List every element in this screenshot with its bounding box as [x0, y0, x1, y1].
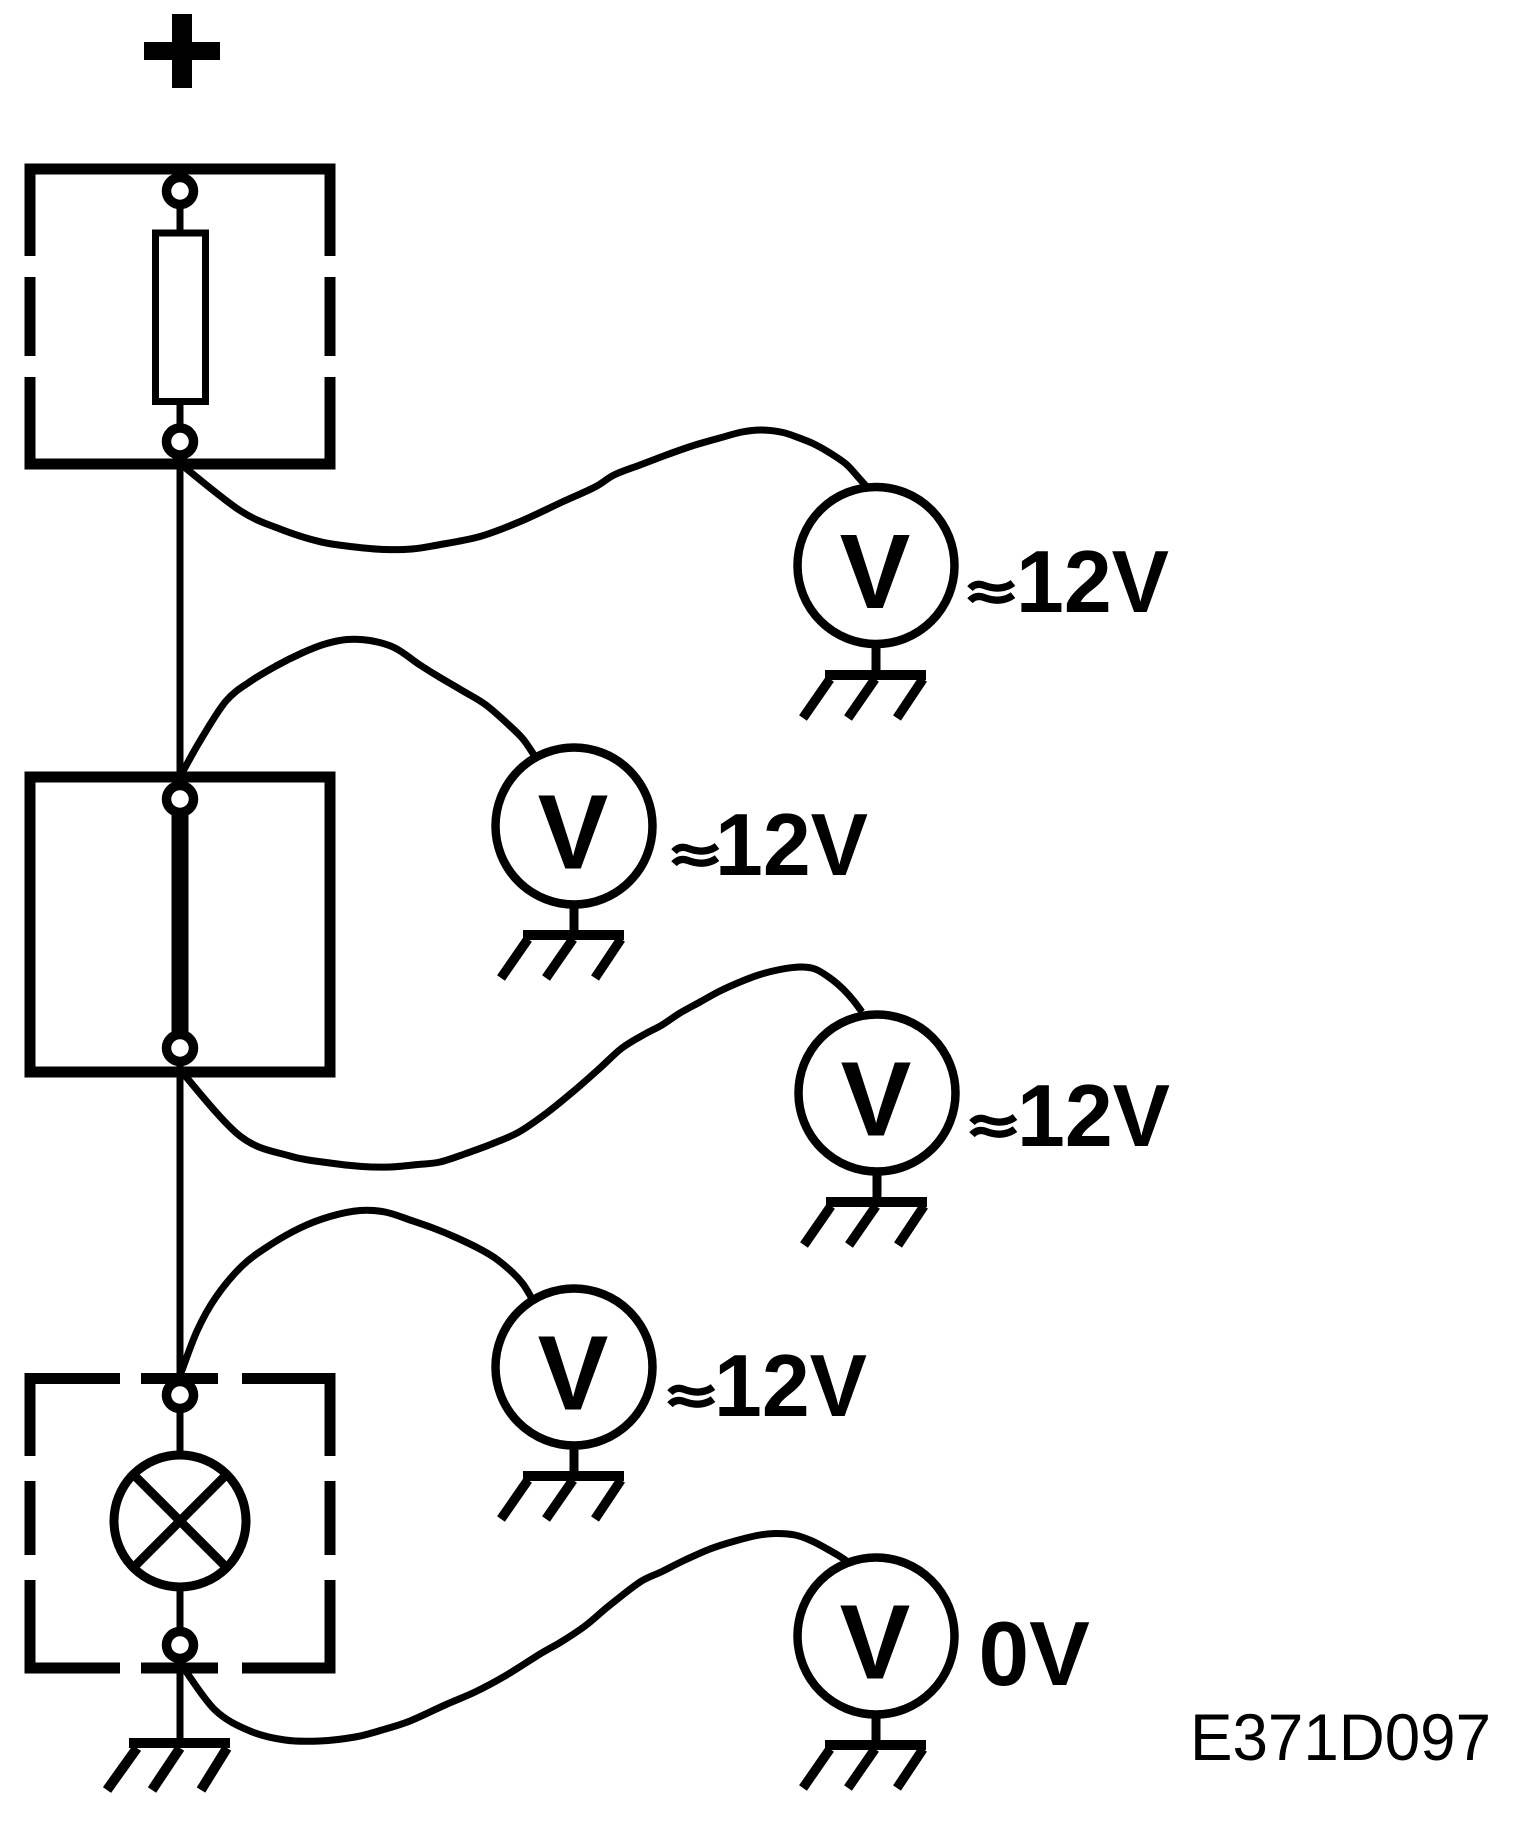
svg-text:V: V	[840, 513, 911, 631]
fuse box U1 (dashed enclosure)	[25, 165, 336, 469]
svg-text:12V: 12V	[1016, 532, 1169, 631]
chassis ground (circuit)	[107, 1743, 230, 1790]
svg-text:V: V	[840, 1584, 911, 1702]
terminal pin: lamp output / node E	[167, 1632, 194, 1659]
voltmeter V4	[496, 1289, 653, 1446]
svg-text:0V: 0V	[979, 1604, 1091, 1705]
fuse F1	[177, 205, 184, 233]
svg-text:V: V	[538, 1315, 609, 1433]
value label: approx 12V at V1	[970, 583, 1013, 601]
terminal pin: switch input / node B	[167, 786, 194, 813]
svg-text:V: V	[841, 1041, 912, 1159]
battery positive supply +	[144, 14, 220, 88]
value label: approx 12V at V3	[972, 1117, 1015, 1135]
lamp box U3 (dashed enclosure)	[25, 1374, 336, 1672]
value label: approx 12V at V4	[670, 1387, 713, 1405]
terminal pin: lamp input / node D	[167, 1382, 194, 1409]
ground: voltmeter V1	[803, 644, 926, 718]
voltmeter V2	[496, 748, 653, 905]
closed switch contact S1	[172, 800, 189, 1048]
svg-text:12V: 12V	[715, 795, 868, 894]
wire: node E (lamp output) to voltmeter V5	[183, 1533, 848, 1741]
ground: voltmeter V2	[501, 904, 624, 978]
svg-text:V: V	[538, 774, 609, 892]
switch box U2 (solid enclosure)	[30, 777, 330, 1072]
ground: voltmeter V5	[803, 1714, 926, 1788]
svg-text:12V: 12V	[714, 1336, 867, 1435]
wire: node C (switch output) to voltmeter V3	[181, 967, 862, 1167]
terminal pin: fuse input	[167, 178, 194, 205]
value label: approx 12V at V2	[674, 846, 717, 864]
terminal pin: fuse output / node A	[167, 428, 194, 455]
wire: lamp box to chassis ground	[177, 1645, 184, 1743]
wire: node D (lamp input) to voltmeter V4	[181, 1210, 531, 1373]
terminal pin: switch output / node C	[167, 1035, 194, 1062]
voltmeter V3	[799, 1015, 956, 1172]
voltmeter V5	[798, 1558, 955, 1715]
lamp L1 (bulb with cross)	[177, 1412, 184, 1455]
ground: voltmeter V4	[501, 1445, 624, 1519]
ground: voltmeter V3	[804, 1171, 927, 1245]
wire: node B (switch input) to voltmeter V2	[181, 639, 534, 775]
voltmeter V1	[798, 487, 955, 644]
wire: switch box to lamp box	[177, 1048, 184, 1395]
svg-text:E371D097: E371D097	[1190, 1700, 1491, 1774]
svg-text:12V: 12V	[1017, 1066, 1170, 1165]
wire: node A (fuse output) to voltmeter V1	[183, 430, 866, 550]
wire: fuse box to switch box	[177, 441, 184, 799]
